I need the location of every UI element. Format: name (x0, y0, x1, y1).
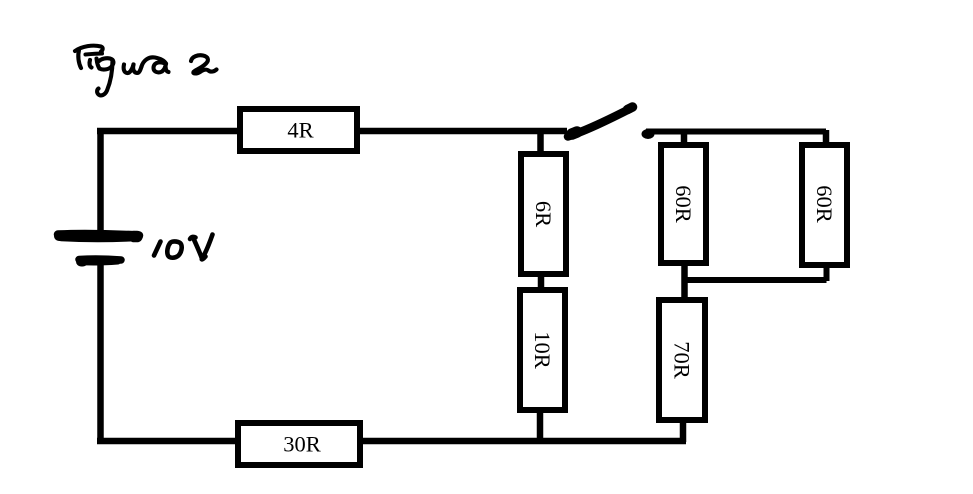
wire: stub from 10R down to bottom wire (537, 410, 544, 441)
svg-text:30R: 30R (283, 432, 321, 457)
svg-text:60R: 60R (812, 185, 837, 223)
svg-text:6R: 6R (531, 201, 556, 227)
wire: bottom connector of 60R pair (684, 277, 827, 283)
switch S1 (open, hand-drawn arm) (568, 107, 633, 137)
resistor 30R (box) (238, 423, 360, 465)
svg-text:10R: 10R (530, 331, 555, 369)
resistor 4R (box) (240, 109, 357, 151)
wire: connector between 6R and 10R (538, 274, 545, 292)
battery V1 short plate (79, 259, 121, 263)
wire: left vertical from battery - plate to bottom wire (97, 259, 104, 441)
title "Figura 2" handwritten (75, 46, 217, 96)
svg-text:4R: 4R (287, 118, 313, 143)
wire: left vertical from top wire to battery + plate (97, 128, 104, 235)
wire: top horizontal from battery to switch (97, 128, 567, 135)
battery V1 (10V) long plate (58, 234, 139, 239)
wire: stub from right wire down to left 60R (681, 130, 688, 146)
resistor 70R (box) (659, 300, 705, 420)
wire: bottom horizontal from battery to 70R stub (97, 438, 686, 445)
wire: stub from right 60R bottom to connector (824, 265, 830, 281)
wire: vertical from left 60R bottom to 70R top (junction) (681, 263, 688, 301)
resistor 6R (box) (521, 154, 566, 274)
svg-text:60R: 60R (671, 185, 696, 223)
svg-text:70R: 70R (670, 341, 695, 379)
wire: right top horizontal from switch contact to right 60R (646, 129, 826, 135)
switch right contact blob (642, 129, 655, 139)
resistor 60R right (box) (802, 145, 847, 265)
wire: stub from right wire down to right 60R (823, 130, 830, 146)
resistor 60R left (box) (661, 145, 706, 263)
wire: stub from 70R bottom to bottom wire (680, 420, 687, 442)
wire: stub from top wire down to 6R (537, 131, 544, 155)
resistor 10R (box) (520, 290, 565, 410)
label 10V handwritten (154, 235, 213, 260)
